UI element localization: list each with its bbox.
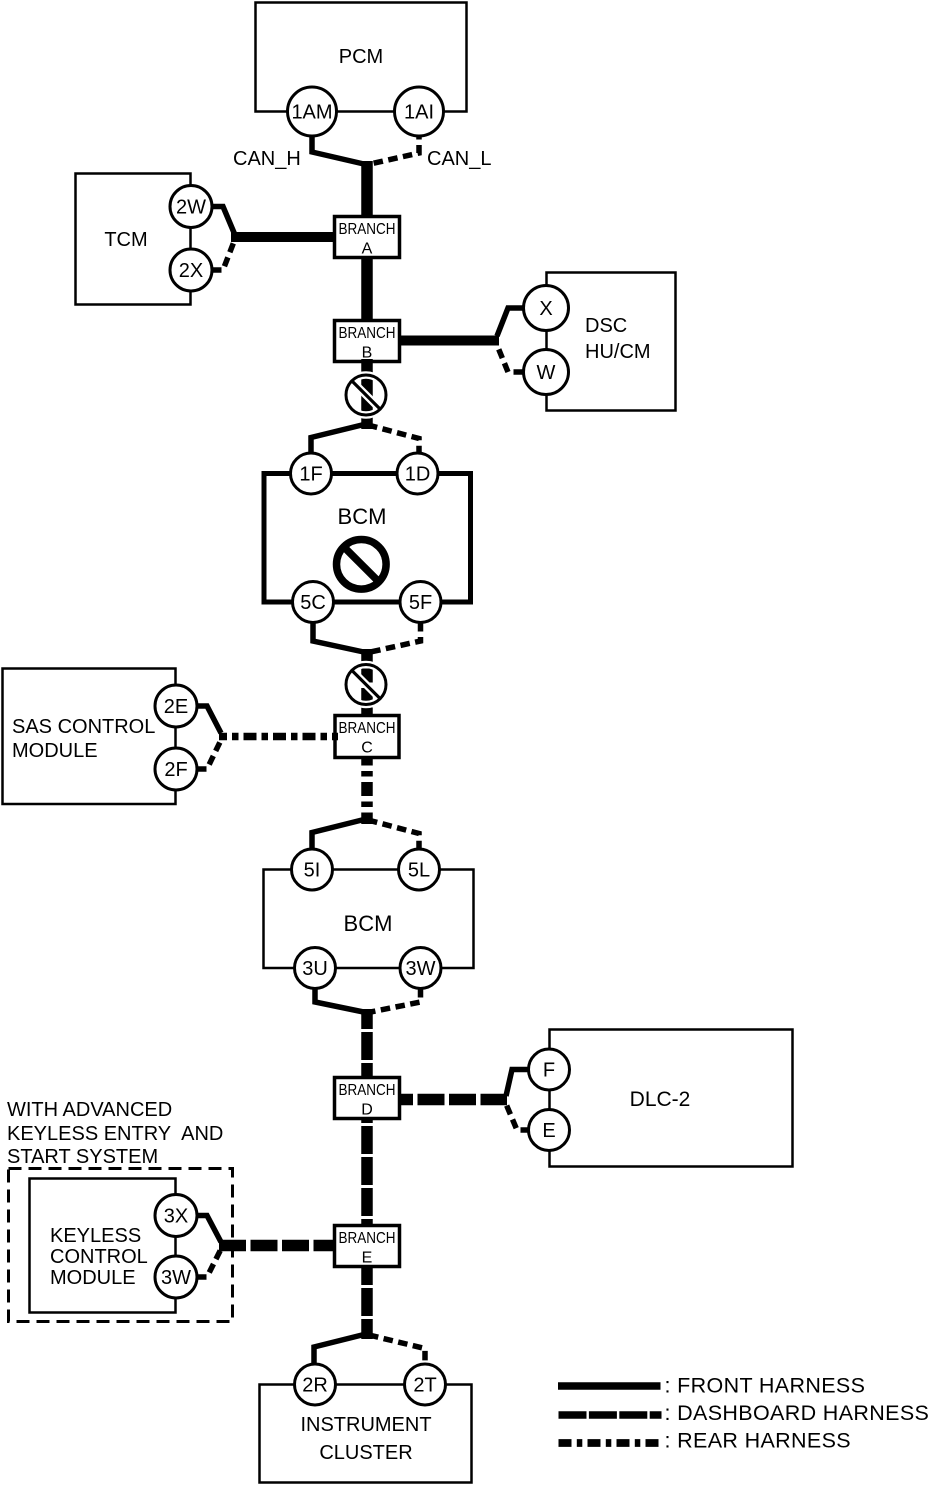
svg-text:3U: 3U: [302, 958, 328, 980]
svg-text:: FRONT HARNESS: : FRONT HARNESS: [665, 1373, 866, 1397]
svg-text:CAN_L: CAN_L: [427, 148, 491, 170]
svg-text:1AM: 1AM: [291, 102, 332, 124]
svg-text:1F: 1F: [299, 464, 322, 486]
svg-text:MODULE: MODULE: [50, 1267, 136, 1289]
svg-text:BRANCH: BRANCH: [339, 720, 396, 737]
svg-text:2X: 2X: [179, 260, 203, 282]
svg-text:X: X: [539, 298, 552, 320]
svg-text:BRANCH: BRANCH: [339, 1082, 396, 1099]
svg-text:KEYLESS: KEYLESS: [50, 1225, 141, 1247]
svg-text:E: E: [362, 1250, 373, 1267]
svg-text:2E: 2E: [164, 696, 188, 718]
svg-text:5F: 5F: [409, 592, 432, 614]
svg-text:3W: 3W: [161, 1267, 191, 1289]
svg-text:F: F: [543, 1060, 555, 1082]
svg-text:BRANCH: BRANCH: [339, 1230, 396, 1247]
svg-text:3W: 3W: [406, 958, 436, 980]
svg-text:HU/CM: HU/CM: [585, 341, 651, 363]
svg-text:START SYSTEM: START SYSTEM: [7, 1146, 158, 1168]
svg-text:CLUSTER: CLUSTER: [319, 1442, 412, 1464]
svg-text:B: B: [362, 345, 373, 362]
svg-text:D: D: [361, 1102, 373, 1119]
svg-text:TCM: TCM: [104, 229, 147, 251]
svg-text:1AI: 1AI: [404, 102, 434, 124]
svg-text:: DASHBOARD HARNESS: : DASHBOARD HARNESS: [665, 1401, 930, 1425]
svg-text:BRANCH: BRANCH: [339, 221, 396, 238]
svg-text:CAN_H: CAN_H: [233, 148, 301, 170]
svg-text:5C: 5C: [300, 592, 326, 614]
svg-text:SAS CONTROL: SAS CONTROL: [12, 716, 155, 738]
svg-text:BRANCH: BRANCH: [339, 325, 396, 342]
svg-text:MODULE: MODULE: [12, 740, 98, 762]
svg-text:E: E: [542, 1120, 555, 1142]
svg-text:5L: 5L: [408, 860, 430, 882]
svg-text:3X: 3X: [164, 1206, 188, 1228]
svg-text:BCM: BCM: [344, 911, 393, 936]
svg-text:KEYLESS ENTRY AND: KEYLESS ENTRY AND: [7, 1123, 223, 1145]
svg-text:W: W: [537, 362, 556, 384]
svg-text:5I: 5I: [304, 860, 321, 882]
svg-text:C: C: [361, 740, 373, 757]
svg-text:DLC-2: DLC-2: [630, 1088, 691, 1111]
svg-text:INSTRUMENT: INSTRUMENT: [300, 1414, 431, 1436]
svg-text:2W: 2W: [176, 197, 206, 219]
svg-text:2T: 2T: [413, 1375, 436, 1397]
svg-text:CONTROL: CONTROL: [50, 1246, 148, 1268]
svg-text:WITH ADVANCED: WITH ADVANCED: [7, 1099, 172, 1121]
svg-text:2R: 2R: [302, 1375, 328, 1397]
svg-text:1D: 1D: [405, 464, 431, 486]
svg-text:DSC: DSC: [585, 315, 627, 337]
svg-text:: REAR HARNESS: : REAR HARNESS: [665, 1429, 852, 1453]
svg-text:2F: 2F: [164, 759, 187, 781]
svg-text:BCM: BCM: [338, 504, 387, 529]
svg-text:A: A: [362, 241, 373, 258]
svg-text:PCM: PCM: [339, 46, 383, 68]
